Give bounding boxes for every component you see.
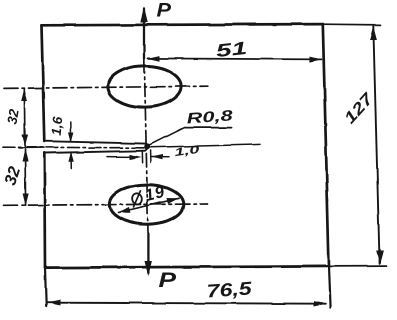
notch tip radius R0.8 [145,144,147,151]
dimension 1.0 arrow left [107,156,137,158]
dimension 1.0 extension line left [141,151,143,163]
notch bottom line [44,151,145,153]
svg-text:1,0: 1,0 [174,144,202,160]
plate left edge lower [43,153,46,268]
plate right edge [323,24,329,267]
svg-text:76,5: 76,5 [206,277,253,301]
svg-text:P: P [157,0,173,22]
dimension 127 line [373,26,379,264]
left edge extension to 76.5 dim [45,268,46,306]
dimension 76.5 line [48,303,326,304]
dimension 32 lower line [24,150,27,206]
notch axis line right [150,144,260,147]
upper hole horizontal centerline [4,86,208,88]
top edge extension line [323,23,381,26]
label diameter 19 [129,183,167,209]
dimension 1.0 arrow right [151,156,169,158]
notch axis centerline left [3,146,147,149]
bottom edge extension line [329,265,387,267]
plate top edge [42,24,324,25]
plate bottom edge [45,266,329,267]
dimension 1.6 upper arrow [69,122,71,141]
svg-text:127: 127 [341,90,377,128]
svg-text:R0,8: R0,8 [186,107,234,127]
right edge extension to 76.5 dim [329,267,331,308]
vertical centerline (dash-dot) [144,60,148,232]
hole upper (d19) [108,66,181,107]
dimension 1.6 lower arrow [70,153,72,169]
notch level extension line to 32 dims [19,147,44,149]
dimension 1.0 extension line right [150,151,152,164]
svg-text:32: 32 [4,108,21,126]
svg-text:P: P [159,269,178,292]
load arrow P top [143,9,145,59]
lower hole horizontal centerline [4,204,208,205]
dimension 32 upper line [23,89,26,146]
svg-text:32: 32 [1,164,24,187]
svg-text:1,6: 1,6 [49,116,66,136]
svg-text:51: 51 [215,38,248,61]
hole lower (d19) [109,185,183,225]
dimension d19 diagonal line [118,198,178,212]
leader line R0.8 [149,128,185,146]
load arrow P bottom [147,233,149,273]
ink blob at notch tip [144,143,150,150]
notch top line [44,141,145,143]
dimension 51 line [148,58,322,59]
plate left edge upper [42,25,45,141]
